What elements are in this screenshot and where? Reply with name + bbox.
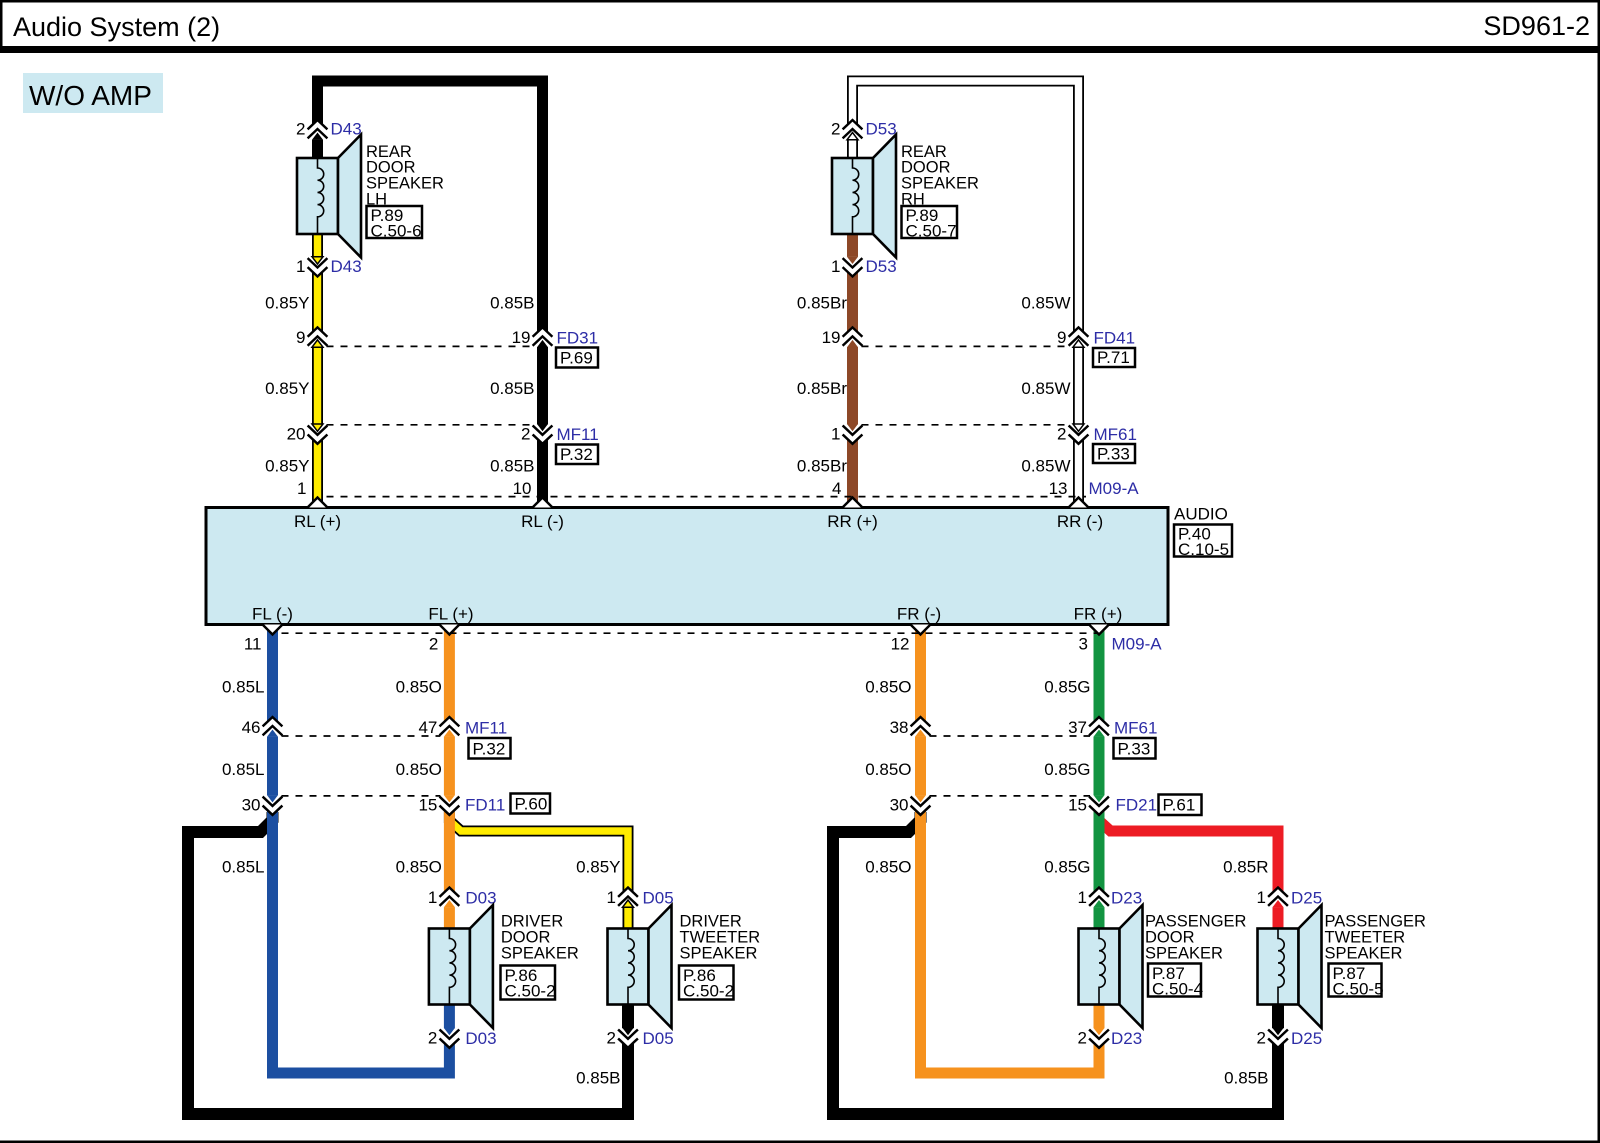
svg-text:0.85L: 0.85L — [222, 678, 265, 697]
svg-text:0.85B: 0.85B — [576, 1069, 620, 1088]
wire label 0.85O right at y775 — [865, 760, 911, 779]
speaker SP4 DRIVER TWEETER SPEAKER (P.86 C.50-2) — [608, 905, 761, 1028]
svg-text:0.85Y: 0.85Y — [265, 457, 309, 476]
wire branch red 0.85R: FD21 pin15 to passenger tweeter speaker pin1 — [1099, 812, 1278, 929]
connector MF61 interface lower (dashed) — [930, 735, 1091, 737]
wire label 0.85L at y692.5 — [222, 678, 265, 697]
svg-text:D05: D05 — [643, 889, 674, 908]
svg-text:W/O AMP: W/O AMP — [29, 80, 152, 111]
svg-text:0.85Br: 0.85Br — [797, 294, 847, 313]
connector MF61 pin 38 — [890, 716, 930, 737]
connector FD11 pin 15 (P.60) — [418, 794, 550, 816]
svg-text:0.85Y: 0.85Y — [265, 379, 309, 398]
svg-text:FR (-): FR (-) — [897, 605, 941, 624]
wire FR(-) orange 0.85O: audio pin12 loop to passenger door speaker pin2 — [921, 625, 1100, 1074]
connector M09-A pin 1 — [297, 479, 326, 508]
audio pin label FL (-) — [252, 605, 293, 624]
svg-text:P.32: P.32 — [473, 740, 506, 759]
audio pin label RL (+) — [294, 512, 341, 531]
svg-text:C.50-2: C.50-2 — [683, 982, 734, 1001]
wire label 0.85W at y394 — [1021, 379, 1070, 398]
svg-text:10: 10 — [513, 479, 532, 498]
svg-text:FR (+): FR (+) — [1074, 605, 1123, 624]
svg-text:D25: D25 — [1291, 889, 1322, 908]
svg-text:0.85B: 0.85B — [490, 379, 534, 398]
svg-text:3: 3 — [1079, 635, 1088, 654]
connector M09-A pin 13 — [1049, 479, 1140, 508]
connector D53 pin 1 — [831, 257, 897, 278]
wire label 0.85B at y1083 right — [1224, 1069, 1268, 1088]
wire label 0.85L at y775 — [222, 760, 265, 779]
wire label 0.85O at y692.5 — [396, 678, 442, 697]
connector MF11 pin 46 — [242, 716, 282, 737]
svg-text:D05: D05 — [643, 1029, 674, 1048]
audio head unit AUDIO P.40 C.10-5 — [206, 505, 1232, 625]
svg-text:D23: D23 — [1111, 889, 1142, 908]
svg-text:FD31: FD31 — [557, 329, 599, 348]
svg-text:9: 9 — [1057, 328, 1066, 347]
connector D53 pin 2 — [831, 119, 897, 140]
connector D03 pin 2 — [428, 1028, 497, 1049]
svg-text:FL (+): FL (+) — [428, 605, 473, 624]
svg-text:0.85R: 0.85R — [1223, 858, 1268, 877]
audio pin label FR (-) — [897, 605, 941, 624]
connector D03 pin 1 — [428, 887, 497, 908]
svg-text:47: 47 — [418, 718, 437, 737]
svg-text:2: 2 — [1257, 1029, 1266, 1048]
svg-text:38: 38 — [890, 718, 909, 737]
audio pin label RR (+) — [827, 512, 878, 531]
svg-text:Audio System (2): Audio System (2) — [13, 12, 220, 42]
connector MF11 interface lower (dashed) — [282, 735, 441, 737]
svg-text:SPEAKER: SPEAKER — [1325, 944, 1403, 962]
svg-text:0.85O: 0.85O — [865, 760, 911, 779]
wire label 0.85Br at y471.5 — [797, 457, 847, 476]
svg-text:2: 2 — [607, 1029, 616, 1048]
connector D25 pin 2 — [1257, 1028, 1323, 1049]
connector D23 pin 2 — [1078, 1028, 1143, 1049]
svg-text:D25: D25 — [1291, 1029, 1322, 1048]
speaker SP2 REAR DOOR SPEAKER RH (P.89 C.50-7) — [832, 135, 979, 258]
wire FL(+) orange 0.85O: audio pin2 to driver door speaker pin1 — [444, 625, 455, 929]
connector M09-A pin 2 — [429, 625, 458, 654]
svg-text:9: 9 — [296, 328, 305, 347]
wire label 0.85G at y692.5 — [1044, 678, 1090, 697]
connector D43 pin 1 — [296, 257, 362, 278]
wire label 0.85B at y308.5 — [490, 294, 534, 313]
svg-text:0.85Br: 0.85Br — [797, 379, 847, 398]
svg-text:2: 2 — [296, 120, 305, 139]
connector D23 pin 1 — [1078, 887, 1143, 908]
connector FD21 interface (dashed) — [930, 795, 1091, 797]
svg-text:D43: D43 — [331, 257, 362, 276]
svg-text:FD21: FD21 — [1116, 796, 1158, 815]
svg-text:2: 2 — [429, 635, 438, 654]
speaker SP3 DRIVER DOOR SPEAKER (P.86 C.50-2) — [429, 905, 579, 1028]
svg-text:M09-A: M09-A — [1089, 479, 1140, 498]
svg-text:0.85W: 0.85W — [1021, 457, 1070, 476]
wire branch black 0.85B: FD21 pin30 junction loop to passenger tweeter speaker pin2 — [833, 812, 1278, 1114]
connector MF61 pin 2 (P.33) — [1057, 424, 1137, 464]
connector M09-A interface lower (dashed) — [282, 632, 1107, 634]
audio pin label FL (+) — [428, 605, 473, 624]
svg-text:0.85W: 0.85W — [1021, 379, 1070, 398]
svg-text:C.50-5: C.50-5 — [1333, 980, 1384, 999]
connector M09-A pin 10 — [513, 479, 552, 508]
connector FD41 pin 9 (P.71) — [1057, 326, 1135, 367]
connector FD41 pin 19 — [822, 326, 862, 347]
svg-text:P.33: P.33 — [1097, 445, 1130, 464]
svg-text:D03: D03 — [465, 1029, 496, 1048]
connector M09-A pin 4 — [832, 479, 861, 508]
svg-text:1: 1 — [296, 257, 305, 276]
audio pin label RL (-) — [521, 512, 564, 531]
wire label 0.85Y at y471.5 — [265, 457, 309, 476]
svg-text:30: 30 — [890, 796, 909, 815]
connector MF11 pin 2 (P.32) — [521, 424, 599, 464]
svg-text:0.85Y: 0.85Y — [265, 294, 309, 313]
wire label 0.85O at y775 — [396, 760, 442, 779]
svg-text:0.85B: 0.85B — [490, 457, 534, 476]
svg-text:30: 30 — [242, 796, 261, 815]
connector D05 pin 1 — [607, 887, 674, 908]
wire label 0.85W at y308.5 — [1021, 294, 1070, 313]
svg-text:12: 12 — [891, 635, 910, 654]
svg-text:0.85O: 0.85O — [396, 858, 442, 877]
svg-text:2: 2 — [1078, 1029, 1087, 1048]
speaker SP5 PASSENGER DOOR SPEAKER (P.87 C.50-4) — [1079, 905, 1247, 1028]
svg-text:1: 1 — [607, 888, 616, 907]
wire RR(-) white 0.85W: rear door speaker RH pin2 loop to audio pin13 — [853, 81, 1079, 508]
svg-text:M09-A: M09-A — [1112, 635, 1163, 654]
svg-text:MF11: MF11 — [557, 425, 599, 444]
wire FR(+) green 0.85G: audio pin3 to passenger door speaker pin1 — [1094, 625, 1105, 929]
wire label 0.85Br at y308.5 — [797, 294, 847, 313]
wire branch black 0.85B: FD11 pin30 junction loop to driver tweeter speaker pin2 — [188, 812, 628, 1114]
wire label 0.85B at y471.5 — [490, 457, 534, 476]
svg-text:FD11: FD11 — [465, 796, 505, 815]
wire label 0.85G at y775 — [1044, 760, 1090, 779]
svg-text:0.85O: 0.85O — [865, 858, 911, 877]
wire RL(+) yellow 0.85Y: audio pin1 to rear door speaker LH pin1 — [312, 234, 323, 508]
svg-text:MF11: MF11 — [465, 719, 507, 738]
audio pin label FR (+) — [1074, 605, 1123, 624]
svg-text:P.32: P.32 — [560, 445, 593, 464]
svg-text:FD41: FD41 — [1094, 329, 1136, 348]
connector FD31 pin 9 — [296, 326, 326, 347]
svg-text:1: 1 — [428, 888, 437, 907]
title Audio System (2) — [13, 12, 220, 42]
wire branch yellow 0.85Y: FD11 pin15 to driver tweeter speaker pin1 — [449, 812, 628, 929]
svg-text:RL (-): RL (-) — [521, 512, 564, 531]
connector FD21 pin 30 — [890, 795, 930, 816]
connector MF61 pin 37 (P.33) — [1068, 716, 1157, 759]
svg-text:D23: D23 — [1111, 1029, 1142, 1048]
svg-text:RR (+): RR (+) — [827, 512, 878, 531]
svg-text:0.85B: 0.85B — [490, 294, 534, 313]
wire label 0.85Y at y872 — [576, 858, 620, 877]
wire label 0.85W at y471.5 — [1021, 457, 1070, 476]
connector MF61 pin 1 — [831, 424, 861, 445]
svg-text:0.85G: 0.85G — [1044, 858, 1090, 877]
svg-text:0.85G: 0.85G — [1044, 678, 1090, 697]
wire RR(+) brown 0.85Br: audio pin4 to rear door speaker RH pin1 — [847, 234, 858, 508]
svg-text:19: 19 — [512, 328, 531, 347]
svg-text:0.85O: 0.85O — [865, 678, 911, 697]
wire RL(-) black: rear door speaker LH pin2 loop to audio pin10 — [318, 81, 543, 508]
svg-text:MF61: MF61 — [1094, 425, 1137, 444]
svg-text:C.10-5: C.10-5 — [1178, 540, 1229, 559]
wire label 0.85L at y872 — [222, 858, 265, 877]
connector MF11 pin 20 — [287, 424, 327, 445]
svg-text:0.85O: 0.85O — [396, 760, 442, 779]
svg-text:SPEAKER: SPEAKER — [680, 944, 758, 962]
wire label 0.85R at y872 — [1223, 858, 1268, 877]
svg-text:0.85O: 0.85O — [396, 678, 442, 697]
svg-text:1: 1 — [297, 479, 306, 498]
svg-text:C.50-7: C.50-7 — [906, 222, 957, 241]
connector M09-A pin 3 — [1079, 625, 1163, 654]
wire label 0.85O at y872 — [396, 858, 442, 877]
connector D05 pin 2 — [607, 1028, 674, 1049]
wire label 0.85B at y1083 left — [576, 1069, 620, 1088]
svg-text:0.85B: 0.85B — [1224, 1069, 1268, 1088]
svg-text:37: 37 — [1068, 718, 1087, 737]
wire label 0.85Br at y394 — [797, 379, 847, 398]
svg-text:C.50-2: C.50-2 — [505, 982, 556, 1001]
svg-text:2: 2 — [428, 1029, 437, 1048]
svg-text:0.85G: 0.85G — [1044, 760, 1090, 779]
svg-text:4: 4 — [832, 479, 841, 498]
title SD961-2 — [1483, 11, 1590, 41]
connector M09-A pin 12 — [891, 625, 930, 654]
connector FD31 pin 19 (P.69) — [512, 326, 599, 367]
svg-text:FL (-): FL (-) — [252, 605, 293, 624]
svg-text:P.71: P.71 — [1097, 348, 1130, 367]
svg-text:20: 20 — [287, 425, 306, 444]
svg-text:15: 15 — [418, 796, 437, 815]
wire label 0.85G at y872 — [1044, 858, 1090, 877]
connector M09-A pin 11 — [244, 625, 282, 654]
connector D43 pin 2 — [296, 119, 362, 140]
connector FD11 pin 30 — [242, 795, 282, 816]
wire label 0.85Y at y394 — [265, 379, 309, 398]
svg-text:D43: D43 — [331, 120, 362, 139]
svg-text:46: 46 — [242, 718, 261, 737]
svg-text:1: 1 — [1078, 888, 1087, 907]
svg-text:AUDIO: AUDIO — [1174, 505, 1228, 524]
svg-text:0.85W: 0.85W — [1021, 294, 1070, 313]
svg-text:13: 13 — [1049, 479, 1068, 498]
svg-text:0.85Br: 0.85Br — [797, 457, 847, 476]
svg-text:D53: D53 — [866, 120, 897, 139]
wire label 0.85O right at y872 — [865, 858, 911, 877]
svg-text:MF61: MF61 — [1114, 719, 1157, 738]
connector FD21 pin 15 (P.61) — [1068, 795, 1201, 816]
svg-text:19: 19 — [822, 328, 841, 347]
svg-text:0.85L: 0.85L — [222, 858, 265, 877]
connector M09-A interface upper (dashed) — [327, 496, 1087, 498]
connector D25 pin 1 — [1257, 887, 1323, 908]
connector MF61 interface upper (dashed) — [862, 424, 1070, 426]
svg-text:P.61: P.61 — [1163, 796, 1196, 815]
wire label 0.85Y at y308.5 — [265, 294, 309, 313]
svg-text:SPEAKER: SPEAKER — [1145, 944, 1223, 962]
svg-text:D53: D53 — [866, 257, 897, 276]
connector FD31 interface (dashed) — [327, 345, 534, 347]
svg-text:RR (-): RR (-) — [1057, 512, 1103, 531]
wire label 0.85O right at y692.5 — [865, 678, 911, 697]
svg-text:C.50-6: C.50-6 — [371, 222, 422, 241]
svg-text:2: 2 — [1057, 425, 1066, 444]
svg-text:SPEAKER: SPEAKER — [501, 944, 579, 962]
svg-text:P.69: P.69 — [560, 349, 593, 368]
connector MF11 interface upper (dashed) — [327, 424, 534, 426]
svg-text:C.50-4: C.50-4 — [1152, 980, 1203, 999]
svg-text:1: 1 — [831, 425, 840, 444]
svg-text:P.33: P.33 — [1118, 740, 1151, 759]
wire label 0.85B at y394 — [490, 379, 534, 398]
connector MF11 pin 47 (P.32) — [418, 716, 510, 759]
svg-text:11: 11 — [244, 635, 262, 654]
connector FD11 interface (dashed) — [282, 795, 441, 797]
wire FL(-) blue 0.85L: audio pin11 loop to driver door speaker pin2 — [273, 625, 450, 1074]
speaker SP6 PASSENGER TWEETER SPEAKER (P.87 C.50-5) — [1258, 905, 1427, 1028]
svg-text:2: 2 — [831, 120, 840, 139]
svg-text:2: 2 — [521, 425, 530, 444]
connector FD41 interface (dashed) — [862, 345, 1070, 347]
speaker SP1 REAR DOOR SPEAKER LH (P.89 C.50-6) — [297, 135, 444, 258]
svg-text:RL (+): RL (+) — [294, 512, 341, 531]
label W/O AMP — [23, 73, 163, 113]
svg-text:15: 15 — [1068, 796, 1087, 815]
audio pin label RR (-) — [1057, 512, 1103, 531]
svg-text:SD961-2: SD961-2 — [1483, 11, 1590, 41]
svg-text:P.60: P.60 — [515, 795, 548, 814]
svg-text:1: 1 — [831, 257, 840, 276]
svg-text:0.85Y: 0.85Y — [576, 858, 620, 877]
svg-text:0.85L: 0.85L — [222, 760, 265, 779]
svg-text:1: 1 — [1257, 888, 1266, 907]
